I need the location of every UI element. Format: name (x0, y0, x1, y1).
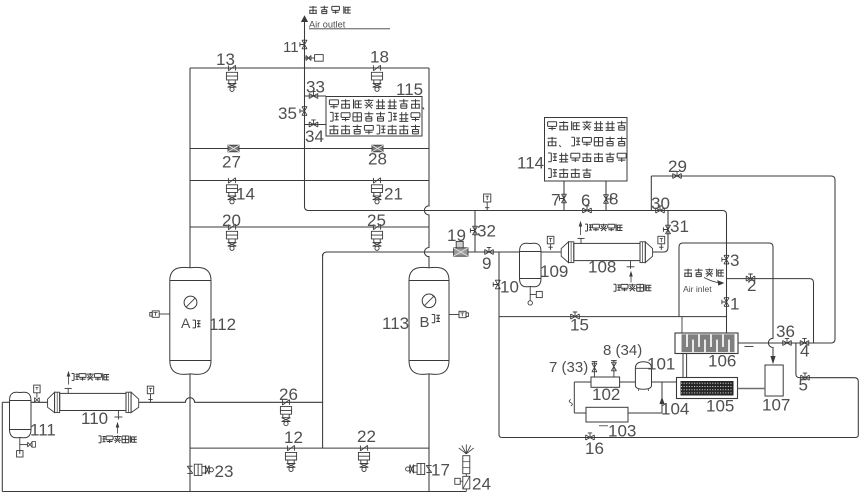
svg-text:13: 13 (216, 50, 235, 69)
svg-text:110: 110 (81, 409, 108, 428)
svg-text:18: 18 (370, 48, 389, 67)
svg-text:25: 25 (367, 211, 386, 230)
svg-text:8: 8 (609, 190, 618, 209)
svg-text:20: 20 (222, 211, 241, 230)
svg-text:11: 11 (283, 39, 299, 56)
svg-text:19: 19 (447, 226, 466, 245)
svg-text:7 (33): 7 (33) (549, 359, 588, 376)
svg-text:29: 29 (668, 157, 687, 176)
svg-text:35: 35 (278, 104, 297, 123)
svg-text:36: 36 (776, 322, 795, 341)
svg-text:5: 5 (799, 376, 808, 395)
svg-text:1: 1 (730, 295, 739, 314)
svg-text:17: 17 (431, 461, 450, 480)
svg-text:104: 104 (661, 400, 689, 419)
svg-text:32: 32 (477, 222, 496, 241)
svg-text:34: 34 (305, 127, 324, 146)
svg-text:9: 9 (482, 254, 491, 273)
svg-text:24: 24 (472, 475, 491, 494)
svg-text:12: 12 (284, 428, 303, 447)
svg-text:107: 107 (762, 396, 790, 415)
svg-text:113: 113 (382, 314, 409, 333)
svg-text:103: 103 (608, 422, 636, 441)
svg-text:109: 109 (540, 262, 568, 281)
svg-text:26: 26 (279, 385, 298, 404)
svg-text:31: 31 (670, 217, 689, 236)
svg-text:30: 30 (651, 194, 670, 213)
svg-text:23: 23 (215, 462, 234, 481)
svg-text:27: 27 (222, 153, 241, 172)
svg-text:111: 111 (30, 421, 56, 440)
svg-text:22: 22 (357, 427, 376, 446)
svg-text:A: A (181, 315, 191, 331)
svg-text:106: 106 (708, 352, 736, 371)
svg-text:101: 101 (647, 355, 675, 374)
svg-text:15: 15 (570, 316, 589, 335)
svg-text:108: 108 (588, 258, 616, 277)
svg-text:B: B (420, 314, 430, 331)
svg-text:33: 33 (306, 78, 325, 97)
svg-text:14: 14 (236, 185, 255, 204)
svg-text:3: 3 (730, 251, 739, 270)
svg-text:21: 21 (384, 185, 403, 204)
svg-text:6: 6 (581, 191, 590, 210)
svg-text:8 (34): 8 (34) (603, 342, 642, 359)
svg-text:2: 2 (747, 276, 756, 295)
svg-text:102: 102 (592, 385, 620, 404)
svg-text:112: 112 (209, 315, 236, 334)
svg-text:105: 105 (706, 397, 734, 416)
svg-text:114: 114 (517, 154, 544, 173)
svg-text:4: 4 (800, 342, 809, 361)
svg-text:Air outlet: Air outlet (309, 19, 346, 29)
svg-text:115: 115 (396, 80, 423, 99)
svg-text:28: 28 (368, 150, 387, 169)
svg-text:Air inlet: Air inlet (683, 284, 712, 294)
svg-text:10: 10 (500, 278, 519, 297)
svg-text:16: 16 (585, 439, 604, 458)
svg-text:7: 7 (551, 191, 560, 210)
